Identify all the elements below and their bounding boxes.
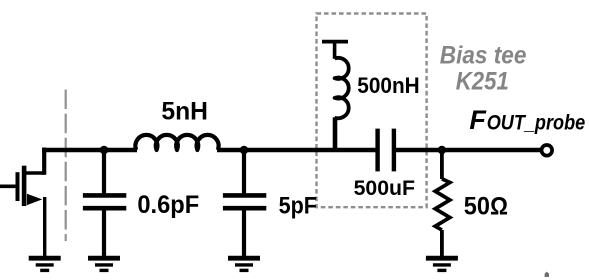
svg-text:OUT_probe: OUT_probe [487, 111, 586, 134]
svg-text:F: F [469, 105, 487, 135]
svg-text:5nH: 5nH [161, 98, 208, 126]
svg-text:Bias tee: Bias tee [440, 41, 527, 69]
svg-text:50Ω: 50Ω [464, 192, 508, 220]
svg-text:K251: K251 [456, 67, 509, 95]
svg-text:5pF: 5pF [279, 193, 317, 220]
svg-text:500uF: 500uF [354, 177, 416, 200]
svg-text:500nH: 500nH [357, 73, 419, 98]
svg-text:0.6pF: 0.6pF [137, 191, 199, 219]
